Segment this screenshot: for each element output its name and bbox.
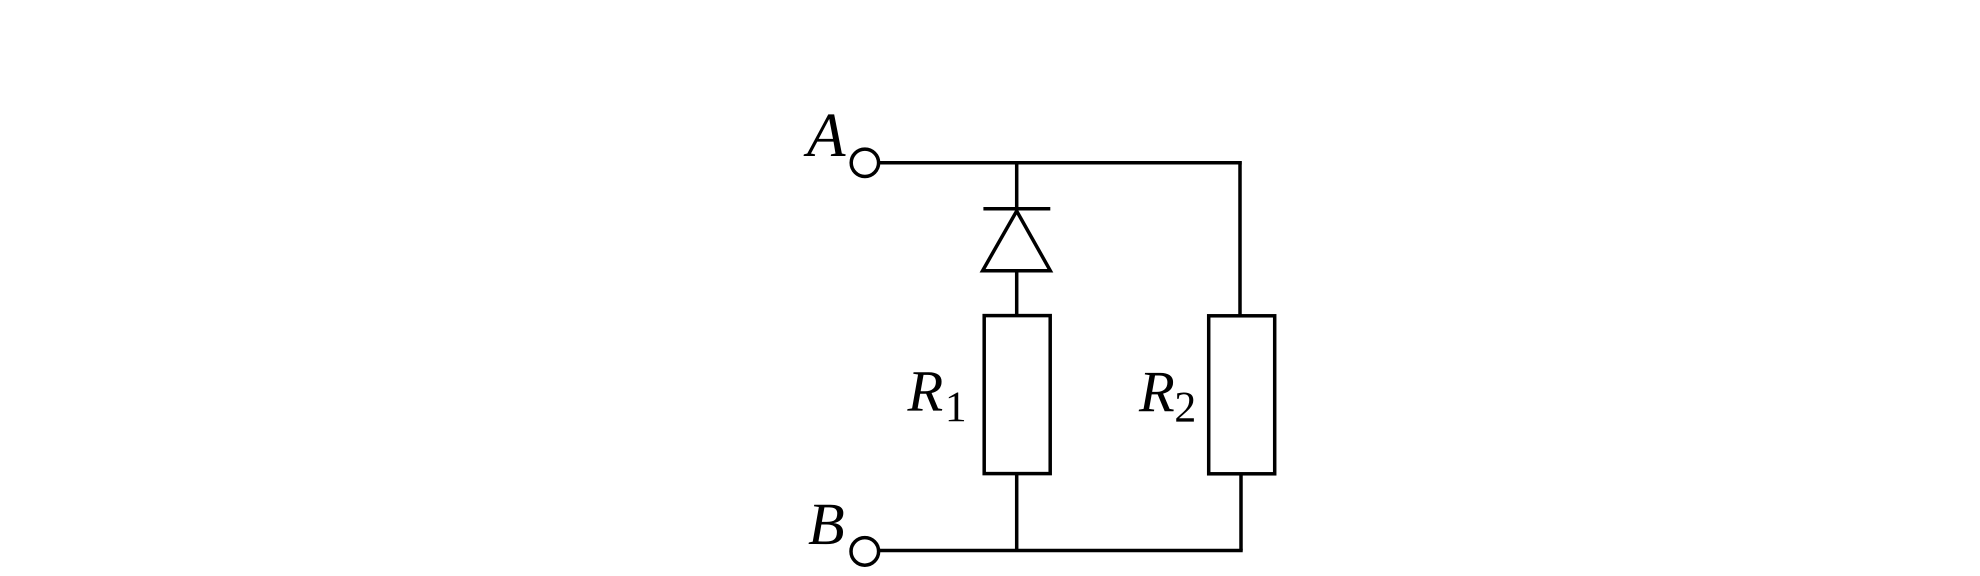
wire bottom horizontal rail	[880, 549, 1243, 553]
resistor R1 body	[984, 316, 1050, 474]
terminal A	[851, 149, 878, 176]
label R2 letter R	[1139, 373, 1174, 411]
wire diode anode to R1 top	[1015, 269, 1019, 317]
node A label	[804, 114, 846, 156]
node B label	[809, 505, 844, 544]
label R1 subscript 1	[949, 392, 964, 421]
label R2 subscript 2	[1176, 392, 1194, 421]
wire top horizontal from A to top-right corner	[880, 161, 1242, 165]
resistor R2 body	[1209, 316, 1275, 474]
wire right vertical down to R2 top	[1238, 161, 1242, 317]
terminal B	[851, 538, 879, 566]
wire junction down to diode cathode	[1015, 163, 1019, 212]
wire R2 bottom to bottom-right corner	[1239, 473, 1243, 551]
diode D1 cathode bar	[983, 207, 1050, 211]
diode D1 triangle	[983, 211, 1051, 271]
label R1 letter R	[907, 372, 942, 410]
wire R1 bottom to bottom rail	[1015, 472, 1019, 552]
